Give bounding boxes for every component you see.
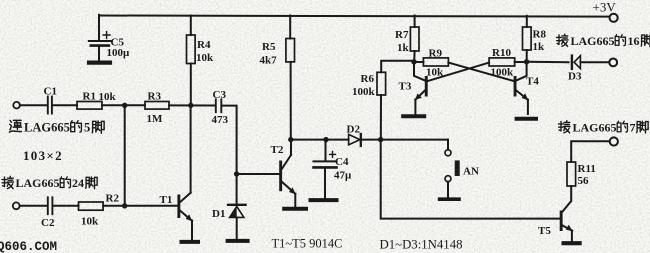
svg-text:Q606.COM: Q606.COM — [0, 240, 57, 253]
svg-text:10k: 10k — [426, 67, 444, 79]
wire: R7 to T3 collector node — [413, 51, 415, 62]
svg-text:103×2: 103×2 — [23, 148, 63, 163]
svg-text:10k: 10k — [99, 91, 117, 103]
svg-text:T4: T4 — [526, 75, 539, 87]
wire: R8 to T4 collector node — [526, 50, 528, 62]
node: D2 cathode / AN / T5 base drive junction — [378, 137, 383, 142]
ground under T3 — [403, 114, 424, 118]
wire: vertical linking the two input rows — [124, 105, 126, 206]
ground under T5 — [564, 241, 580, 245]
capacitor C3 473 — [216, 99, 222, 112]
svg-text:R10: R10 — [492, 47, 511, 59]
output terminal (pin 16) — [609, 59, 617, 67]
capacitor C1 103 — [48, 97, 52, 114]
resistor R2 10k — [79, 202, 104, 210]
svg-text:C2: C2 — [41, 217, 55, 229]
svg-text:R4: R4 — [197, 39, 211, 51]
svg-text:R11: R11 — [578, 163, 596, 175]
ground under AN — [440, 197, 459, 201]
svg-text:7: 7 — [630, 120, 636, 134]
svg-text:16: 16 — [628, 34, 640, 48]
wire: terminal to C2 — [20, 205, 47, 207]
svg-text:+3V: +3V — [593, 0, 617, 15]
capacitor C2 103 — [48, 197, 53, 214]
wire: R1 to R3 with junction — [102, 104, 145, 106]
wire: C3 right then down to T2 base node — [222, 106, 236, 174]
svg-text:R1: R1 — [83, 91, 96, 103]
svg-text:100k: 100k — [352, 86, 376, 98]
annotation: jie LAG665 de 24 jiao — [2, 176, 97, 190]
svg-text:C1: C1 — [44, 86, 57, 98]
wire: R4 drop from rail — [190, 16, 192, 36]
resistor R6 100k — [377, 72, 386, 95]
transistor T1 9014 — [177, 105, 192, 239]
wire: +3V top supply rail — [99, 16, 609, 17]
ground under T4 — [517, 117, 536, 121]
wire: R7 drop from rail — [414, 16, 416, 28]
svg-text:24: 24 — [72, 176, 84, 190]
wire: R3 to C3 with node — [169, 104, 216, 106]
wire: R5 drop from rail — [289, 16, 291, 39]
svg-text:LAG665: LAG665 — [24, 120, 70, 134]
svg-text:D1: D1 — [212, 208, 225, 220]
transistor T4 9014 — [514, 62, 529, 114]
transistor T3 9014 (mirrored) — [414, 62, 428, 114]
svg-text:R9: R9 — [429, 48, 443, 60]
wire: R6 bottom to D2 node — [380, 95, 382, 140]
node: C4/D2 junction — [323, 137, 328, 142]
ground under D1 — [228, 239, 248, 243]
svg-text:R2: R2 — [106, 193, 120, 205]
transistor T5 9014 — [560, 211, 573, 241]
power terminal +3V — [610, 14, 618, 22]
wire: T2 collector to C4 node — [291, 139, 326, 141]
wire: R11 to T5 collector — [563, 186, 572, 211]
node: R2/vertical junction — [122, 203, 127, 208]
node: T4 collector — [524, 59, 529, 64]
ground under T1 — [182, 240, 199, 244]
input terminal (pin 24 row) — [13, 202, 20, 209]
capacitor C5 100u electrolytic — [89, 32, 111, 63]
svg-text:T2: T2 — [271, 144, 284, 156]
svg-text:C4: C4 — [335, 156, 349, 168]
resistor R3 1M — [145, 102, 169, 110]
svg-text:10k: 10k — [196, 52, 214, 64]
svg-text:AN: AN — [463, 166, 479, 178]
wire: down from node then across to T5 base — [381, 140, 560, 219]
annotation: lian LAG665 de 5 jiao — [9, 120, 104, 134]
wire: terminal to R11 — [571, 141, 609, 162]
svg-text:LAG665: LAG665 — [571, 34, 615, 48]
resistor R11 56 — [567, 162, 576, 186]
node: R1/R3/vertical junction — [122, 103, 127, 108]
svg-text:T3: T3 — [399, 81, 412, 93]
resistor R4 10k — [187, 35, 196, 64]
node: T2 collector — [288, 137, 293, 142]
capacitor C4 47u electrolytic — [314, 140, 337, 198]
svg-text:LAG665: LAG665 — [573, 120, 617, 134]
wire: R9 cross-couple diagonal to T4 base — [448, 63, 513, 81]
wire: terminal to C1 — [20, 104, 47, 106]
resistor R1 10k — [77, 102, 102, 110]
svg-text:R3: R3 — [148, 91, 162, 103]
svg-text:473: 473 — [212, 114, 229, 126]
wire: R4 to middle node — [190, 64, 192, 106]
wire: R6 top corner to T3 collector node — [381, 61, 414, 73]
svg-text:T1~T5 9014C: T1~T5 9014C — [272, 237, 343, 251]
svg-text:100k: 100k — [491, 67, 515, 79]
svg-text:C3: C3 — [213, 89, 227, 101]
node: T2 base / D1 junction — [234, 171, 239, 176]
diode D3 1N4148 — [572, 56, 609, 69]
resistor R8 1k — [523, 27, 532, 50]
svg-text:D3: D3 — [568, 71, 582, 83]
svg-text:R6: R6 — [361, 73, 375, 85]
wire: node to T2 base — [237, 173, 280, 175]
wire: C1 to R1 — [53, 104, 77, 106]
svg-text:1M: 1M — [147, 113, 164, 125]
scan noise overlay — [0, 0, 1, 1]
resistor R5 4k7 — [286, 39, 295, 62]
wire: drop to AN button — [447, 140, 449, 150]
svg-text:LAG665: LAG665 — [16, 176, 60, 190]
svg-text:1k: 1k — [397, 42, 410, 54]
resistor R10 100k — [489, 58, 526, 66]
svg-text:56: 56 — [578, 175, 590, 187]
svg-text:T1: T1 — [160, 194, 173, 206]
ground under C4 — [311, 198, 337, 202]
diode D2 1N4148 — [326, 134, 448, 146]
node: R3/R4/C3/T1 junction — [188, 103, 193, 108]
wire: C2 to R2 — [54, 205, 79, 207]
resistor R7 1k — [410, 27, 419, 51]
resistor R9 10k — [414, 58, 448, 66]
wire: R2 to T1 base with junction — [103, 205, 177, 207]
node: T3 collector — [411, 59, 416, 64]
annotation: jie LAG665 de 16 jiao — [556, 34, 650, 48]
push-button AN — [445, 150, 460, 197]
input terminal (pin 5 row) — [13, 102, 20, 109]
svg-text:47μ: 47μ — [334, 169, 352, 181]
wire: R5 to T2 collector node — [290, 62, 292, 140]
output terminal (pin 7) — [610, 137, 618, 145]
svg-text:R7: R7 — [395, 29, 409, 41]
svg-text:100μ: 100μ — [107, 47, 131, 59]
wire: T4 collector node to D3 — [527, 61, 569, 63]
svg-text:5: 5 — [84, 120, 90, 134]
svg-text:R8: R8 — [533, 29, 547, 41]
svg-text:D1~D3:1N4148: D1~D3:1N4148 — [380, 238, 463, 252]
diode D1 1N4148 — [228, 174, 246, 239]
svg-text:4k7: 4k7 — [260, 55, 278, 67]
svg-text:1k: 1k — [533, 41, 546, 53]
svg-text:T5: T5 — [538, 225, 551, 237]
wire: R8 drop from rail — [526, 16, 528, 27]
svg-text:D2: D2 — [347, 123, 361, 135]
svg-text:10k: 10k — [81, 215, 99, 227]
ground under T2 — [284, 207, 306, 211]
wire: R10 cross-couple diagonal to T3 base — [428, 63, 489, 81]
wire: C5 drop from rail — [98, 15, 100, 40]
svg-text:R5: R5 — [262, 41, 276, 53]
annotation: jie LAG665 de 7 jiao — [558, 120, 648, 134]
transistor T2 9014 — [279, 140, 296, 207]
